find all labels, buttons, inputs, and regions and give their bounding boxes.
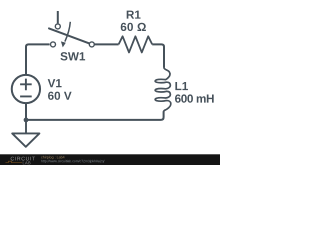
voltage source V1 circle (12, 75, 40, 103)
node: ground junction dot (24, 118, 29, 123)
wire: resistor to inductor top (152, 44, 164, 67)
switch SW1 common terminal (89, 42, 94, 47)
label SW1 (60, 52, 85, 60)
resistor R1 (119, 36, 153, 52)
wire: junction to ground (25, 120, 27, 133)
switch SW1 actuation arrow head (61, 41, 66, 47)
label R1 (127, 11, 141, 19)
watermark bar (0, 154, 220, 165)
wire: switch left throw to V1 top (26, 44, 50, 74)
wire: V1 bottom to junction, bottom rail to inductor (26, 104, 164, 120)
label 60 V (48, 92, 72, 100)
switch SW1 left throw terminal (51, 42, 56, 47)
watermark title (41, 156, 64, 159)
switch SW1 actuation arrow shaft (65, 22, 70, 42)
watermark logo CIRCUIT (11, 157, 35, 161)
switch SW1 lever (49, 28, 89, 43)
inductor L1 coil (155, 68, 171, 112)
ground (12, 133, 39, 146)
switch SW1 top throw terminal (55, 24, 60, 29)
watermark logo trace (6, 161, 23, 162)
label L1 (175, 82, 188, 90)
watermark url (41, 160, 104, 163)
label 60 ohm (121, 23, 146, 31)
wire: switch common to resistor (94, 43, 118, 45)
label 600 mH (175, 94, 214, 102)
switch SW1 unconnected throw lead (57, 11, 59, 23)
voltage source V1 plus/minus (20, 79, 32, 97)
watermark logo LAB (23, 162, 31, 165)
label V1 (48, 79, 62, 87)
